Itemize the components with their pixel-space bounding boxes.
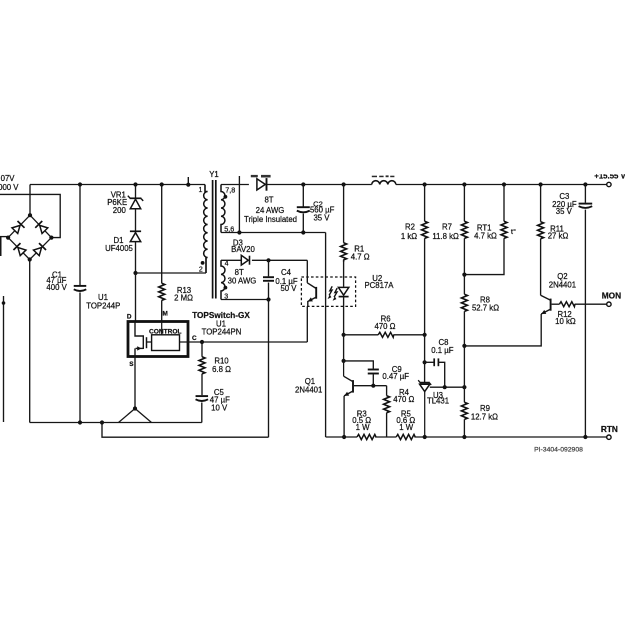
wire rail mid segment — [375, 436, 396, 438]
terminal MON — [607, 302, 611, 306]
resistor R13 — [159, 185, 165, 322]
resistor R1 — [341, 185, 347, 263]
node bias return on primary rail — [100, 420, 104, 424]
text C1 value — [46, 276, 66, 285]
text C3 voltage — [556, 207, 573, 216]
svg-text:30 AWG: 30 AWG — [228, 277, 257, 286]
text C5 voltage — [211, 403, 228, 412]
text R6 value — [374, 322, 395, 331]
wire bridge bottom to - rail — [29, 260, 31, 423]
wire VR1 to D1 — [135, 209, 137, 234]
svg-text:11.8 kΩ: 11.8 kΩ — [432, 232, 459, 241]
node LED cathode junction — [342, 333, 346, 337]
text pin 1 — [199, 187, 203, 194]
wire secondary pin 7,8 to D5 — [221, 184, 249, 186]
node Q2 emitter junction — [462, 344, 466, 348]
wire D1 to drain node — [135, 242, 137, 273]
terminal +15.55V — [607, 182, 611, 186]
svg-text:C: C — [192, 335, 197, 342]
transformer bias winding pins 4-3 — [221, 260, 225, 299]
diode D1 — [130, 231, 141, 241]
wire AC input upper — [0, 194, 60, 237]
svg-text:7,8: 7,8 — [225, 185, 235, 194]
node ref on R8-R9 — [462, 385, 466, 389]
text pin 3 — [224, 293, 228, 300]
transistor Q2 — [541, 295, 551, 314]
wire Q1 emitter down — [343, 396, 345, 437]
text D1 part — [105, 244, 133, 253]
node R7-R8 junction — [462, 273, 466, 277]
wire VR1 top lead — [135, 185, 137, 199]
capacitor C9 — [368, 370, 379, 386]
capacitor C5 — [196, 396, 209, 422]
svg-text:2: 2 — [199, 267, 203, 274]
text pin M — [163, 310, 168, 317]
text RT1 t deg — [511, 227, 516, 236]
svg-text:R2: R2 — [405, 222, 415, 231]
text C9 value — [382, 372, 409, 381]
resistor R11 — [538, 185, 544, 296]
wire bias return down — [268, 300, 270, 438]
wire pin 4 to D3 — [221, 259, 241, 261]
node C2 bottom — [301, 230, 305, 234]
wire cropped winding return — [237, 176, 241, 235]
text D3 — [233, 239, 243, 248]
resistor R6 — [344, 332, 425, 337]
text R11 — [550, 225, 564, 234]
wire C9 top — [344, 361, 374, 369]
wire R2 chain to TL431 — [424, 335, 426, 382]
svg-text:CONTROL: CONTROL — [149, 328, 182, 335]
wire TL431 ref — [430, 386, 465, 388]
text C3 value — [552, 200, 577, 209]
text C2 value — [310, 206, 335, 215]
svg-text:470 Ω: 470 Ω — [374, 322, 395, 331]
text CONTROL — [149, 328, 182, 335]
wire rail right segment — [414, 436, 606, 438]
text C8 — [439, 338, 449, 347]
text C2 voltage — [313, 214, 330, 223]
text Y1 — [209, 170, 219, 179]
svg-text:470 Ω: 470 Ω — [393, 395, 414, 404]
text VR1 part — [107, 198, 127, 207]
svg-text:TOP244PN: TOP244PN — [202, 328, 242, 337]
svg-text:C4: C4 — [281, 268, 292, 277]
text R7 — [442, 222, 452, 231]
transformer secondary winding pins 7,8 - 5,6 — [221, 185, 225, 233]
text U3 — [433, 391, 443, 400]
zener VR1 — [128, 196, 143, 209]
text R1 value — [351, 252, 370, 261]
text RTN — [601, 424, 618, 434]
diode D5 (label cropped) — [257, 178, 267, 191]
thermistor RT1 — [464, 185, 507, 275]
text C1 voltage — [46, 283, 67, 292]
capacitor C2 — [297, 185, 310, 233]
text R1 — [354, 244, 364, 253]
resistor R5 — [396, 434, 415, 439]
text bias wire gauge — [228, 277, 257, 286]
svg-text:4.7 Ω: 4.7 Ω — [351, 252, 370, 261]
node TL431 anode on rail — [423, 435, 427, 439]
wire Q1 base — [354, 385, 387, 387]
resistor R2 — [422, 185, 428, 335]
capacitor C1 — [74, 185, 87, 423]
terminal RTN — [607, 435, 611, 439]
text VR1 — [111, 191, 126, 200]
svg-text:35 V: 35 V — [556, 207, 573, 216]
text C3 — [559, 192, 569, 201]
text output voltage (cropped) — [594, 171, 625, 180]
svg-text:10 V: 10 V — [211, 403, 228, 412]
transformer primary winding pins 1-2 — [204, 185, 208, 273]
svg-text:52.7 kΩ: 52.7 kΩ — [472, 303, 499, 312]
svg-text:000 V: 000 V — [0, 183, 19, 192]
shunt regulator U3 TL431 — [418, 380, 431, 437]
text R2 — [405, 222, 415, 231]
text U1 left part — [86, 301, 120, 310]
text R7 value — [432, 232, 459, 241]
resistor R9 — [461, 346, 467, 437]
text Q1 part — [295, 386, 322, 395]
svg-text:Triple Insulated: Triple Insulated — [244, 215, 297, 224]
secondary polarity dot — [224, 195, 228, 199]
node C8 on ref wire — [443, 385, 447, 389]
wire rail left segment — [326, 436, 357, 438]
wire L1 to output — [396, 184, 607, 186]
text R3 watt — [356, 423, 371, 432]
text secondary wire gauge — [256, 206, 285, 215]
node drain junction — [133, 271, 137, 275]
svg-text:Y1: Y1 — [209, 170, 219, 179]
svg-text:TL431: TL431 — [427, 397, 449, 406]
wire drain down to U1 D pin — [135, 273, 137, 322]
svg-text:M: M — [163, 310, 168, 317]
text R3 value — [352, 416, 371, 425]
node pin 3 junction — [266, 297, 270, 301]
svg-text:Q1: Q1 — [305, 377, 315, 386]
node R1 top — [342, 182, 346, 186]
resistor R3 — [357, 434, 376, 439]
capacitor C8 — [425, 358, 445, 387]
wire bridge top to + rail — [29, 185, 31, 216]
node Q1 collector junction — [342, 359, 346, 363]
text U2 part — [364, 281, 394, 290]
svg-text:50 V: 50 V — [280, 284, 297, 293]
text C2 — [313, 200, 323, 209]
svg-text:PI-3404-092908: PI-3404-092908 — [534, 446, 583, 453]
svg-text:4: 4 — [225, 260, 229, 267]
node VR1 top — [133, 182, 137, 186]
text U2 — [372, 274, 382, 283]
text C5 value — [210, 396, 230, 405]
text R8 value — [472, 303, 499, 312]
cropped D5 label marks — [251, 175, 271, 178]
wire LED junction down — [343, 335, 345, 361]
text R10 — [214, 357, 229, 366]
text VR1 value — [113, 206, 127, 215]
svg-text:1 W: 1 W — [356, 423, 371, 432]
wire D3 to opto collector — [252, 260, 307, 277]
text R10 value — [212, 365, 231, 374]
text C8 value — [431, 346, 453, 355]
wire Q2 emitter down — [464, 314, 541, 346]
svg-text:S: S — [129, 361, 134, 368]
text pin 2 — [199, 267, 203, 274]
wire bias return bottom — [102, 423, 269, 438]
text R11 value — [548, 231, 569, 240]
text C4 value — [275, 277, 297, 286]
text U1 — [216, 319, 226, 328]
bridge rectifier — [6, 213, 54, 262]
text R4 — [399, 388, 410, 397]
svg-text:6.8 Ω: 6.8 Ω — [212, 365, 231, 374]
wire AC input lower — [0, 237, 7, 256]
wire secondary return — [221, 233, 326, 438]
svg-text:PC817A: PC817A — [364, 281, 394, 290]
bias polarity dot — [224, 286, 228, 290]
node Q1 emitter on rail — [342, 435, 346, 439]
text U1 left ref — [98, 293, 108, 302]
svg-text:0.1 µF: 0.1 µF — [431, 346, 453, 355]
text C4 — [281, 268, 292, 277]
node R13 top — [160, 182, 164, 186]
text RT1 — [477, 223, 492, 232]
node R6-R2 junction — [423, 333, 427, 337]
svg-text:24 AWG: 24 AWG — [256, 206, 285, 215]
text Q2 — [557, 272, 567, 281]
source junction legs — [119, 406, 152, 422]
text R13 value — [174, 293, 193, 302]
text input label line1 (cropped) — [1, 174, 16, 183]
node cropped stub — [186, 177, 190, 187]
node RT1 top — [502, 182, 506, 186]
node C1 top — [78, 182, 82, 186]
node C3 top — [583, 182, 587, 186]
svg-text:R7: R7 — [442, 222, 452, 231]
text R12 — [557, 310, 571, 319]
resistor R4 — [384, 386, 390, 437]
text C5 — [214, 388, 225, 397]
text R4 value — [393, 395, 414, 404]
text R9 value — [471, 412, 498, 421]
text C1 — [52, 270, 62, 279]
svg-text:35 V: 35 V — [313, 214, 330, 223]
text R8 — [480, 295, 490, 304]
wire S pin down — [134, 357, 136, 409]
text Q2 part — [549, 280, 576, 289]
text R5 — [401, 409, 412, 418]
primary polarity dot — [201, 261, 205, 265]
svg-text:BAV20: BAV20 — [231, 245, 255, 254]
text RT1 value — [474, 231, 497, 240]
wire primary - rail — [30, 422, 202, 424]
wire C2 node to L1 — [303, 184, 371, 186]
text C9 — [392, 365, 402, 374]
node C3 bottom — [583, 435, 587, 439]
text R5 watt — [399, 423, 414, 432]
wire drain horizontal to transformer pin 2 — [136, 258, 207, 274]
text pin C — [192, 335, 197, 342]
wire cropped input filter vertical — [2, 296, 6, 422]
opto LED — [338, 259, 348, 334]
text R2 value — [401, 232, 417, 241]
svg-text:8T: 8T — [264, 196, 273, 205]
text pin S — [129, 361, 134, 368]
svg-text:400 V: 400 V — [46, 283, 67, 292]
node R11 top — [539, 182, 543, 186]
wire primary + rail — [30, 185, 205, 192]
inductor L1 (label cropped) — [372, 181, 396, 185]
svg-text:12.7 kΩ: 12.7 kΩ — [471, 412, 498, 421]
text pin D — [127, 313, 132, 320]
node TL431 cathode junction — [423, 360, 427, 364]
node C2 top — [301, 182, 305, 186]
svg-text:1 kΩ: 1 kΩ — [401, 232, 417, 241]
text C4 voltage — [280, 284, 297, 293]
svg-text:10 kΩ: 10 kΩ — [555, 317, 576, 326]
text D3 part — [231, 245, 255, 254]
text TOPSwitch-GX — [192, 311, 250, 320]
wire C pin to opto emitter — [202, 306, 307, 342]
svg-text:4.7 kΩ: 4.7 kΩ — [474, 231, 497, 240]
text MON — [602, 291, 621, 301]
diode D3 — [241, 255, 249, 265]
wire pin 3 to bias return — [221, 299, 269, 301]
cropped L1 label marks — [372, 175, 395, 177]
svg-text:RTN: RTN — [601, 424, 618, 434]
text secondary turns — [264, 196, 273, 205]
text input label line2 (cropped) — [0, 183, 19, 192]
text D1 — [114, 236, 124, 245]
svg-text:1 W: 1 W — [399, 423, 414, 432]
opto light arrows — [328, 286, 338, 301]
svg-text:TOP244P: TOP244P — [86, 301, 120, 310]
svg-text:D: D — [127, 313, 132, 320]
svg-text:MON: MON — [602, 291, 621, 301]
resistor R10 — [199, 342, 205, 395]
text Q1 — [305, 377, 315, 386]
svg-text:2N4401: 2N4401 — [549, 280, 576, 289]
text R9 — [480, 404, 490, 413]
resistor R8 — [461, 275, 467, 346]
svg-text:UF4005: UF4005 — [105, 244, 133, 253]
text R5 value — [396, 416, 415, 425]
text R3 — [357, 409, 367, 418]
svg-text:2N4401: 2N4401 — [295, 386, 322, 395]
opto phototransistor — [307, 277, 316, 306]
text PI number — [534, 446, 583, 453]
text bias turns — [235, 268, 244, 277]
svg-text:1: 1 — [199, 187, 203, 194]
svg-text:27 kΩ: 27 kΩ — [548, 231, 569, 240]
svg-text:t°: t° — [511, 227, 516, 236]
capacitor C3 — [579, 185, 593, 438]
text U1 part — [202, 328, 242, 337]
resistor R7 — [461, 185, 467, 275]
text U3 part — [427, 397, 449, 406]
svg-text:0.47 µF: 0.47 µF — [382, 372, 409, 381]
optocoupler U2 box — [301, 277, 355, 306]
text pins 5,6 — [224, 224, 234, 233]
text R6 — [381, 315, 391, 324]
node C4 top — [266, 258, 270, 262]
svg-text:07V: 07V — [1, 174, 16, 183]
capacitor C4 — [263, 260, 274, 299]
node C9 bottom junction — [371, 384, 375, 388]
svg-text:2 MΩ: 2 MΩ — [174, 293, 193, 302]
node R9 bottom — [462, 435, 466, 439]
text pins 7,8 — [225, 185, 235, 194]
transistor Q1 — [344, 361, 353, 396]
node R4 on rail junction — [0, 0, 1, 1]
wire D5 to C2 node — [267, 184, 304, 186]
node R2 top — [423, 182, 427, 186]
text pin 4 — [225, 260, 229, 267]
text R12 value — [555, 317, 576, 326]
resistor R12 — [552, 302, 607, 307]
node R7 top — [462, 182, 466, 186]
text secondary insulation — [244, 215, 297, 224]
node C1 bottom — [78, 420, 82, 424]
op-amp U1 TOPSwitch block — [128, 322, 202, 357]
text R13 — [177, 286, 191, 295]
node control pin — [200, 340, 204, 344]
svg-text:200: 200 — [113, 206, 127, 215]
transformer core — [213, 180, 216, 299]
